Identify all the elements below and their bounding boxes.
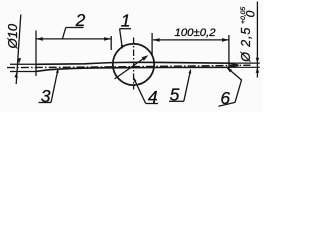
svg-text:4: 4 [148, 87, 158, 107]
svg-text:1: 1 [121, 10, 131, 30]
svg-text:Ø 2,5: Ø 2,5 [239, 27, 253, 63]
svg-text:2: 2 [75, 10, 86, 30]
svg-text:5: 5 [170, 84, 180, 104]
svg-text:100±0,2: 100±0,2 [175, 27, 217, 39]
svg-text:0: 0 [243, 10, 257, 17]
svg-text:6: 6 [220, 88, 230, 108]
svg-text:Ø10: Ø10 [5, 23, 20, 49]
svg-text:3: 3 [41, 86, 51, 106]
